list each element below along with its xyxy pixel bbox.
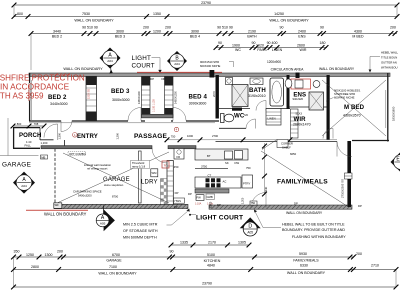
svg-text:800: 800: [17, 12, 23, 16]
svg-text:1335: 1335: [180, 241, 188, 245]
svg-text:90: 90: [170, 250, 174, 254]
svg-text:1305: 1305: [238, 241, 246, 245]
svg-text:KITCHEN: KITCHEN: [204, 259, 221, 263]
svg-text:FALL: FALL: [25, 144, 32, 148]
svg-text:1350: 1350: [153, 12, 161, 16]
svg-text:V: V: [164, 162, 167, 167]
svg-text:DP: DP: [294, 202, 298, 206]
svg-text:ENTRY: ENTRY: [77, 133, 98, 140]
svg-text:DW: DW: [235, 161, 240, 165]
svg-text:940x920: 940x920: [293, 97, 304, 101]
svg-text:1000: 1000: [187, 134, 194, 138]
svg-text:708: 708: [34, 122, 39, 126]
svg-text:1020: 1020: [256, 43, 264, 47]
svg-text:BATH: BATH: [247, 34, 257, 38]
svg-text:TITLE BOUN: TITLE BOUN: [381, 55, 397, 59]
svg-text:A04: A04: [107, 59, 113, 63]
svg-text:3750: 3750: [201, 165, 208, 169]
svg-text:MIN 2.5 CUBIC MTR: MIN 2.5 CUBIC MTR: [123, 223, 158, 227]
svg-text:WITH AS 3959: WITH AS 3959: [0, 91, 44, 100]
svg-text:WIR: WIR: [300, 48, 307, 52]
svg-text:DP: DP: [150, 77, 154, 81]
svg-text:1810X1800: 1810X1800: [392, 106, 396, 121]
svg-text:HEBEL WALL: HEBEL WALL: [381, 50, 399, 54]
svg-text:90 510 90: 90 510 90: [82, 26, 98, 30]
svg-text:HEBEL WALL TO BE BUILT ON TITL: HEBEL WALL TO BE BUILT ON TITLE: [282, 222, 345, 226]
svg-text:800: 800: [17, 122, 22, 126]
svg-text:1450X1200: 1450X1200: [138, 91, 141, 104]
svg-text:2070: 2070: [212, 91, 216, 97]
svg-text:LINEN: LINEN: [268, 117, 276, 121]
svg-text:PASS: PASS: [257, 48, 267, 52]
svg-text:750: 750: [171, 135, 176, 139]
svg-text:BED 4: BED 4: [189, 93, 208, 100]
svg-text:HWS: HWS: [175, 199, 182, 203]
svg-text:CIRCULATION AREA: CIRCULATION AREA: [271, 67, 304, 71]
svg-text:CORNER: CORNER: [281, 142, 293, 146]
svg-text:WALL ON BOUNDARY: WALL ON BOUNDARY: [63, 67, 103, 71]
svg-text:FW: FW: [197, 196, 202, 200]
svg-text:200: 200: [57, 250, 63, 254]
svg-text:MIN 600MM DEPTH: MIN 600MM DEPTH: [123, 235, 157, 239]
svg-text:1,200: 1,200: [242, 197, 245, 204]
svg-text:Threshold: Threshold: [132, 161, 145, 165]
svg-text:4840: 4840: [207, 264, 215, 268]
svg-text:450: 450: [174, 165, 179, 169]
svg-text:1:10A: 1:10A: [195, 203, 202, 206]
svg-text:200: 200: [390, 26, 396, 30]
svg-text:14250: 14250: [274, 12, 284, 16]
svg-text:1200: 1200: [153, 29, 161, 33]
svg-text:350: 350: [14, 250, 20, 254]
svg-text:3000x3000: 3000x3000: [112, 98, 130, 102]
svg-text:8700: 8700: [112, 195, 119, 199]
svg-text:MB: MB: [41, 155, 45, 159]
svg-text:GMB: GMB: [207, 195, 213, 199]
svg-text:7100: 7100: [109, 265, 117, 269]
svg-text:180: 180: [320, 41, 326, 45]
svg-text:M BED: M BED: [352, 34, 364, 38]
svg-text:ref energy report: ref energy report: [87, 167, 108, 171]
svg-text:BED 2: BED 2: [52, 34, 62, 38]
svg-text:2700: 2700: [212, 134, 219, 138]
svg-text:1300: 1300: [45, 253, 53, 257]
svg-text:WALL ON BOUNDARY: WALL ON BOUNDARY: [269, 19, 309, 23]
svg-text:600X400 NICHE: 600X400 NICHE: [200, 64, 220, 68]
svg-text:2170: 2170: [208, 241, 216, 245]
svg-text:FAMILY/MEALS: FAMILY/MEALS: [277, 179, 328, 186]
svg-text:90: 90: [252, 41, 256, 45]
svg-text:WALL ON BOUNDARY: WALL ON BOUNDARY: [74, 19, 114, 23]
svg-text:900X1100 HOBLESS.: 900X1100 HOBLESS.: [334, 88, 361, 92]
svg-text:6330: 6330: [300, 264, 308, 268]
svg-text:PTRY: PTRY: [243, 182, 250, 186]
svg-text:A05: A05: [247, 230, 253, 234]
svg-text:ramp 1/1.8: ramp 1/1.8: [132, 165, 146, 169]
svg-text:stone stepdown: stone stepdown: [104, 183, 124, 187]
svg-text:LINEN: LINEN: [272, 48, 283, 52]
svg-text:DP: DP: [188, 192, 192, 196]
svg-text:90 400: 90 400: [267, 41, 278, 45]
svg-text:LIGHT: LIGHT: [132, 55, 152, 62]
svg-text:BED 4: BED 4: [190, 34, 200, 38]
svg-text:1250: 1250: [26, 253, 34, 257]
svg-text:WALL ON BOUNDARY: WALL ON BOUNDARY: [44, 212, 87, 217]
svg-text:1450X1200: 1450X1200: [174, 91, 177, 104]
svg-text:PORCH: PORCH: [19, 132, 42, 139]
svg-text:90: 90: [320, 26, 324, 30]
svg-text:3090: 3090: [191, 29, 199, 33]
svg-text:2600: 2600: [297, 43, 305, 47]
svg-text:DP: DP: [217, 203, 221, 207]
svg-text:SK: SK: [225, 161, 229, 165]
svg-text:IN ACCORDANCE: IN ACCORDANCE: [0, 82, 70, 92]
svg-text:A04: A04: [174, 62, 180, 66]
svg-text:3190x2010: 3190x2010: [248, 94, 266, 98]
svg-text:DP: DP: [174, 205, 178, 209]
svg-text:GARAGE: GARAGE: [106, 258, 122, 262]
svg-text:WALL ON BOUNDARY: WALL ON BOUNDARY: [98, 272, 137, 276]
svg-text:COURT: COURT: [132, 62, 155, 69]
svg-text:E: E: [396, 157, 400, 163]
svg-text:BT: BT: [207, 154, 211, 158]
svg-text:OPT COMBO: OPT COMBO: [69, 152, 86, 156]
svg-text:1:40: 1:40: [26, 140, 32, 144]
svg-text:5930: 5930: [299, 252, 307, 256]
svg-text:BED 3: BED 3: [115, 34, 125, 38]
svg-text:200: 200: [356, 252, 362, 256]
svg-text:BED 2: BED 2: [48, 94, 67, 101]
svg-text:2800: 2800: [31, 265, 39, 269]
svg-text:WALL ON BOUNDARY: WALL ON BOUNDARY: [287, 271, 326, 275]
svg-text:WF: WF: [55, 203, 60, 207]
svg-text:7530: 7530: [82, 12, 90, 16]
svg-text:750: 750: [251, 201, 256, 205]
svg-text:90 510 90: 90 510 90: [217, 26, 233, 30]
svg-text:3000: 3000: [116, 29, 124, 33]
svg-text:WC: WC: [235, 48, 241, 52]
svg-text:6700: 6700: [112, 253, 120, 257]
svg-text:PASSAGE: PASSAGE: [134, 133, 168, 140]
svg-text:FR: FR: [177, 155, 181, 159]
svg-text:1,200: 1,200: [116, 132, 120, 139]
svg-text:1,300: 1,300: [58, 132, 62, 139]
svg-text:23790: 23790: [201, 1, 211, 5]
svg-text:1510 SD: 1510 SD: [87, 89, 91, 99]
svg-text:OF STORAGE WITH: OF STORAGE WITH: [123, 229, 158, 233]
svg-text:2400: 2400: [298, 29, 306, 33]
svg-text:FAMILY/MEALS: FAMILY/MEALS: [293, 258, 319, 262]
svg-text:FLASHING WITHIN BOUNDARY: FLASHING WITHIN BOUNDARY: [292, 235, 346, 239]
svg-text:720: 720: [244, 113, 249, 117]
svg-text:5400x3200: 5400x3200: [78, 194, 92, 198]
svg-text:6650: 6650: [290, 152, 297, 156]
svg-text:ENS: ENS: [298, 34, 306, 38]
svg-text:1,200: 1,200: [41, 141, 48, 145]
svg-text:STEPFREE SHR: STEPFREE SHR: [334, 92, 355, 96]
svg-text:1,200: 1,200: [210, 201, 213, 208]
svg-text:2600x1470: 2600x1470: [293, 122, 311, 126]
svg-text:DP: DP: [358, 204, 362, 208]
svg-text:GUTTER AN: GUTTER AN: [381, 60, 397, 64]
svg-text:90: 90: [218, 41, 222, 45]
svg-text:600R400 NICHE: 600R400 NICHE: [334, 96, 355, 100]
svg-text:internal wall insulation: internal wall insulation: [84, 163, 111, 167]
svg-text:WALL ON BOUNDARY: WALL ON BOUNDARY: [319, 67, 355, 71]
svg-text:SHELF: SHELF: [282, 145, 291, 149]
svg-text:GARAGE: GARAGE: [2, 162, 31, 169]
svg-text:DP: DP: [162, 77, 166, 81]
svg-text:2710X2365 SS: 2710X2365 SS: [341, 179, 345, 198]
svg-text:4440: 4440: [264, 186, 268, 193]
svg-text:LDRY: LDRY: [141, 180, 158, 186]
svg-text:4300: 4300: [354, 29, 362, 33]
svg-text:DP: DP: [175, 191, 179, 195]
svg-text:BOUNDARY. PROVIDE GUTTER AND: BOUNDARY. PROVIDE GUTTER AND: [282, 228, 345, 232]
svg-text:90: 90: [280, 26, 284, 30]
svg-text:CAR PARKING SPACE: CAR PARKING SPACE: [73, 190, 102, 194]
svg-text:D: D: [248, 224, 252, 230]
svg-text:A05: A05: [100, 222, 106, 226]
svg-text:2710: 2710: [371, 264, 379, 268]
svg-text:LIGHT COURT: LIGHT COURT: [196, 215, 243, 222]
svg-text:3090x3000: 3090x3000: [189, 101, 207, 105]
svg-text:3440: 3440: [53, 29, 61, 33]
svg-text:WALL ON BOUNDARY: WALL ON BOUNDARY: [286, 211, 323, 215]
svg-text:1900: 1900: [232, 43, 240, 47]
svg-text:1:100 1:100: 1:100 1:100: [153, 99, 156, 112]
svg-text:2190: 2190: [248, 29, 256, 33]
svg-text:BED 3: BED 3: [111, 88, 130, 95]
svg-text:750: 750: [246, 166, 251, 170]
svg-text:WM: WM: [152, 171, 158, 175]
svg-text:200: 200: [143, 26, 149, 30]
svg-text:200: 200: [165, 26, 171, 30]
svg-text:AC: AC: [223, 180, 227, 184]
svg-text:5100: 5100: [207, 253, 215, 257]
svg-text:3440x3000: 3440x3000: [50, 102, 68, 106]
svg-text:1200x900: 1200x900: [267, 60, 281, 64]
svg-text:23790: 23790: [202, 282, 212, 286]
svg-text:900X1510 SHR: 900X1510 SHR: [200, 60, 219, 64]
svg-text:A04: A04: [21, 184, 27, 188]
svg-text:WITHIN BOU: WITHIN BOU: [381, 65, 398, 69]
